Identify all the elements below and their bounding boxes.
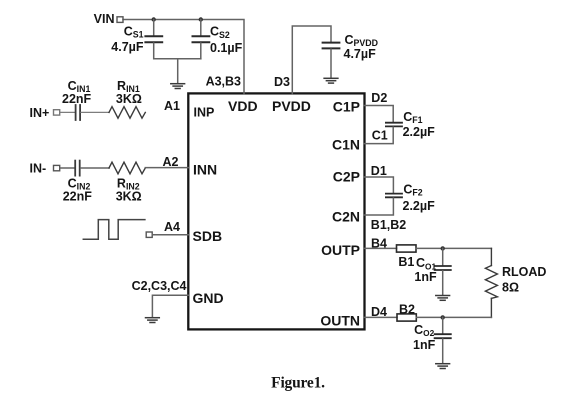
- svg-text:1nF: 1nF: [413, 338, 436, 352]
- svg-text:A3,B3: A3,B3: [206, 74, 241, 88]
- ground below CO1: [436, 296, 450, 301]
- capacitor CPVDD: [323, 43, 340, 49]
- wire IN- to CIN2: [60, 167, 74, 169]
- wire CO2 lower stem: [442, 339, 444, 363]
- ground below GND pin: [146, 318, 160, 323]
- wire OUTP pin to bead B1: [365, 247, 397, 249]
- ferrite bead B1: [397, 245, 417, 252]
- svg-text:C2N: C2N: [332, 209, 360, 225]
- svg-text:1nF: 1nF: [414, 270, 437, 284]
- svg-text:3KΩ: 3KΩ: [116, 92, 142, 106]
- capacitor CO2: [435, 334, 451, 338]
- svg-text:PVDD: PVDD: [272, 98, 311, 114]
- svg-text:A2: A2: [163, 155, 179, 169]
- svg-text:IN+: IN+: [30, 106, 50, 120]
- node junction OUTN-CO2: [441, 315, 445, 319]
- wire CF1 to C1N pin: [365, 127, 394, 143]
- wire CS2 upper stub: [200, 20, 202, 36]
- svg-text:CF2: CF2: [403, 183, 422, 198]
- svg-text:B1: B1: [398, 255, 414, 269]
- svg-text:C1N: C1N: [332, 137, 360, 153]
- capacitor CS2: [193, 36, 210, 42]
- wire CS2 lower stub: [200, 43, 202, 59]
- svg-text:D4: D4: [371, 305, 387, 319]
- ground below CPVDD: [324, 78, 338, 83]
- wire C2P pin to CF2: [365, 177, 394, 193]
- node junction VIN-CS1: [152, 17, 156, 21]
- svg-text:RLOAD: RLOAD: [502, 265, 546, 279]
- svg-text:VIN: VIN: [94, 12, 115, 26]
- terminal IN-: [54, 165, 60, 170]
- capacitor CO1: [435, 266, 451, 270]
- terminal IN+: [54, 110, 60, 115]
- svg-text:D2: D2: [371, 91, 387, 105]
- wire CIN2 to RIN2: [81, 167, 109, 169]
- svg-text:22nF: 22nF: [63, 189, 93, 203]
- svg-text:C2P: C2P: [333, 169, 360, 185]
- wire CO2 upper stem: [442, 317, 444, 333]
- terminal VIN: [117, 17, 123, 23]
- svg-text:CS1: CS1: [124, 25, 144, 40]
- svg-text:INN: INN: [193, 162, 217, 178]
- wire CIN1 to RIN1: [81, 111, 109, 113]
- svg-text:OUTN: OUTN: [320, 312, 360, 328]
- svg-text:8Ω: 8Ω: [502, 281, 519, 295]
- square wave symbol SDB: [83, 220, 145, 240]
- wire GND pin to ground: [152, 295, 188, 317]
- svg-text:CS2: CS2: [210, 25, 230, 40]
- svg-text:GND: GND: [193, 290, 224, 306]
- wire PVDD net: [292, 26, 331, 93]
- svg-text:22nF: 22nF: [62, 92, 92, 106]
- wire CS1 upper stub: [153, 20, 155, 36]
- wire ground stem CS: [177, 59, 179, 83]
- wire CF2 to C2N pin: [365, 198, 394, 215]
- IC U1 body: [188, 93, 364, 329]
- svg-text:B2: B2: [399, 303, 415, 317]
- svg-text:2.2µF: 2.2µF: [403, 199, 436, 213]
- svg-text:4.7µF: 4.7µF: [344, 47, 377, 61]
- capacitor CIN2: [75, 161, 80, 176]
- wire C1P pin to CF1: [365, 106, 394, 123]
- svg-text:2.2µF: 2.2µF: [403, 125, 436, 139]
- resistor RLOAD: [485, 248, 497, 317]
- wire VIN net top: [123, 20, 244, 94]
- wire CPVDD lower stem: [330, 49, 332, 77]
- wire CO1 upper stem: [442, 248, 444, 265]
- capacitor CS1: [145, 36, 162, 42]
- svg-text:D3: D3: [274, 75, 290, 89]
- wire IN+ to CIN1: [60, 111, 75, 113]
- wire OUTN pin to bead B2: [365, 316, 398, 318]
- svg-text:A4: A4: [164, 220, 180, 234]
- svg-text:INP: INP: [194, 105, 215, 119]
- node junction VIN-CS2: [199, 17, 203, 21]
- resistor RIN1: [109, 107, 145, 119]
- capacitor CIN1: [76, 105, 81, 120]
- svg-text:CO2: CO2: [414, 323, 434, 338]
- ground below CS caps: [171, 84, 185, 89]
- svg-text:CF1: CF1: [403, 110, 422, 125]
- svg-text:SDB: SDB: [193, 228, 223, 244]
- wire CO1 lower stem: [442, 271, 444, 295]
- svg-text:0.1µF: 0.1µF: [210, 41, 243, 55]
- ferrite bead B2: [397, 314, 416, 321]
- svg-text:C1P: C1P: [333, 98, 360, 114]
- svg-text:OUTP: OUTP: [321, 242, 360, 258]
- terminal SDB: [146, 232, 152, 237]
- wire RIN2 to INN pin: [145, 167, 188, 169]
- svg-text:Figure1.: Figure1.: [271, 375, 325, 392]
- svg-text:IN-: IN-: [30, 162, 47, 176]
- svg-text:B1,B2: B1,B2: [371, 218, 406, 232]
- svg-text:B4: B4: [371, 237, 387, 251]
- wire bead B1 to RLOAD top: [416, 247, 491, 249]
- svg-text:VDD: VDD: [228, 98, 258, 114]
- ground below CO2: [436, 364, 450, 369]
- node junction OUTP-CO1: [441, 246, 445, 250]
- svg-text:4.7µF: 4.7µF: [111, 40, 144, 54]
- svg-text:C1: C1: [372, 129, 388, 143]
- wire bead B2 to RLOAD bottom: [416, 316, 491, 318]
- svg-text:3KΩ: 3KΩ: [116, 189, 142, 203]
- capacitor CF2: [386, 194, 402, 198]
- svg-text:C2,C3,C4: C2,C3,C4: [132, 279, 187, 293]
- resistor RIN2: [109, 162, 145, 174]
- svg-text:D1: D1: [371, 164, 387, 178]
- wire SDB to pin A4: [153, 234, 189, 236]
- capacitor CF1: [386, 123, 402, 127]
- svg-text:A1: A1: [164, 99, 180, 113]
- wire CS1 lower stub: [154, 43, 201, 59]
